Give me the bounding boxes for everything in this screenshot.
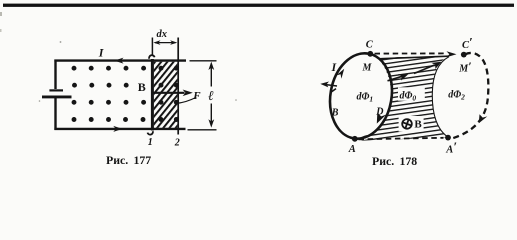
arrowhead on right loop arc xyxy=(479,114,488,123)
field dots (B out of page) xyxy=(72,66,179,122)
top horizontal rule xyxy=(3,4,514,7)
solid top boundary of swept surface xyxy=(379,56,449,59)
contour C (left loop, solid ellipse) xyxy=(323,48,398,143)
dx double arrow xyxy=(155,42,176,44)
svg-text:Рис. 178: Рис. 178 xyxy=(372,154,417,168)
page background xyxy=(0,0,517,169)
svg-text:B: B xyxy=(138,80,146,94)
rod top hook xyxy=(149,55,155,59)
battery: short terminal bar xyxy=(49,89,63,91)
B into page symbol (circle with cross) xyxy=(402,119,412,129)
dashed displacement line A to A' xyxy=(359,138,444,140)
tangent arrow I at left loop xyxy=(324,84,337,86)
rod (sliding conductor, position 1) xyxy=(151,59,154,131)
wire: left wire lower segment xyxy=(54,98,56,130)
wire: top wire of circuit xyxy=(54,59,186,61)
node C' (dot) xyxy=(461,52,467,58)
svg-text:F: F xyxy=(192,90,201,102)
svg-text:B: B xyxy=(331,108,339,119)
svg-text:A: A xyxy=(348,144,356,155)
svg-text:2: 2 xyxy=(174,137,180,148)
svg-text:D: D xyxy=(375,107,383,118)
svg-text:dx: dx xyxy=(157,29,168,40)
dimension tick bottom (for l) xyxy=(188,129,217,131)
white knockout for dPhi0 label xyxy=(398,87,425,100)
svg-text:ℓ: ℓ xyxy=(208,88,214,103)
l dimension arrow upper xyxy=(210,64,212,87)
small arrow on hatch (sweep direction, left) xyxy=(388,76,403,81)
leader curve under F xyxy=(176,97,197,103)
arrowhead on left loop lower-right arc xyxy=(377,113,386,124)
wire: bottom wire of circuit xyxy=(54,128,185,130)
hatched swept side-surface between contours (dPhi0 region) xyxy=(357,56,449,140)
line at position 2 xyxy=(177,38,179,135)
contour C' (right loop, dashed arc) xyxy=(452,53,489,139)
l dimension arrow lower xyxy=(210,104,212,126)
force arrow F xyxy=(153,92,185,94)
rod bottom hook xyxy=(148,131,153,134)
dimension tick above rod (for dx) xyxy=(151,38,153,57)
hatched strip (swept area dS) xyxy=(154,62,178,128)
svg-text:Рис. 177: Рис. 177 xyxy=(106,153,151,167)
scan speckles (decorative) xyxy=(0,12,237,102)
battery: long terminal bar xyxy=(42,95,72,98)
arrowhead on left loop upper-left arc (current direction) xyxy=(336,69,344,79)
svg-text:B: B xyxy=(414,118,422,130)
thin right boundary of hatched region xyxy=(432,57,449,138)
small arrow on hatch (sweep direction, right) xyxy=(414,65,435,74)
current arrow on bottom wire (pointing right) xyxy=(113,126,122,132)
svg-text:1: 1 xyxy=(148,137,153,148)
svg-text:C: C xyxy=(366,40,374,51)
svg-text:M: M xyxy=(362,63,373,74)
node A (dot) xyxy=(352,136,358,142)
tick on left arc xyxy=(331,89,336,92)
node A' (dot) xyxy=(445,135,451,141)
white knockout for B-into-page symbol xyxy=(399,116,424,132)
dimension tick top (for l) xyxy=(190,60,217,62)
node C (dot) xyxy=(367,51,373,57)
wire: left wire upper segment xyxy=(54,60,56,90)
dashed displacement line C to C' with arrowhead xyxy=(375,52,447,54)
current arrow on top wire (pointing left) xyxy=(114,58,123,64)
